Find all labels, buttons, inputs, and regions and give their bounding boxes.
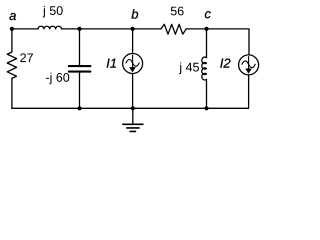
current source label I1 — [107, 59, 116, 68]
inductor j50 — [38, 26, 62, 29]
ground — [132, 108, 134, 124]
capacitor bottom junction dot — [77, 106, 81, 110]
inductor j45 bottom junction dot — [204, 106, 208, 110]
inductor value label j 45 — [179, 62, 199, 74]
wire node c to inductor j45 — [206, 29, 208, 58]
inductor j45 — [202, 57, 207, 80]
capacitor top junction dot — [77, 27, 81, 31]
wire node b to I1 — [132, 29, 134, 53]
capacitor value label -j 60 — [46, 73, 69, 85]
node label b — [131, 9, 138, 19]
inductor value label j 50 — [43, 6, 63, 18]
wire top rail a to inductor — [12, 28, 38, 30]
wire I2 to bottom rail — [248, 75, 250, 108]
node label c — [205, 11, 211, 18]
node label a — [9, 13, 15, 20]
wire inductor j45 to bottom rail — [206, 79, 208, 108]
capacitor -j60 plates — [69, 66, 91, 72]
wire resistor 56 to node c and corner — [186, 29, 249, 55]
wire capacitor branch upper — [79, 29, 81, 66]
current source I1 circle — [123, 54, 143, 74]
resistor value label 56 — [171, 7, 184, 16]
node c junction dot — [204, 27, 208, 31]
current source I1 arrow and sine — [132, 55, 134, 68]
wire bottom rail — [12, 107, 249, 109]
current source label I2 — [220, 59, 230, 68]
current source I2 arrow and sine — [248, 57, 250, 70]
node a junction dot — [10, 27, 14, 31]
resistor value label 27 — [20, 53, 33, 62]
wire inductor to node b — [62, 28, 162, 30]
resistor 56 — [161, 24, 186, 34]
node b junction dot — [131, 27, 135, 31]
ground junction dot — [131, 106, 135, 110]
wire left branch upper — [11, 29, 13, 52]
wire capacitor branch lower — [79, 72, 81, 108]
wire left branch lower — [11, 78, 13, 108]
current source I2 circle — [239, 55, 259, 75]
resistor 27 — [7, 52, 16, 78]
wire I1 to bottom rail — [132, 74, 134, 108]
